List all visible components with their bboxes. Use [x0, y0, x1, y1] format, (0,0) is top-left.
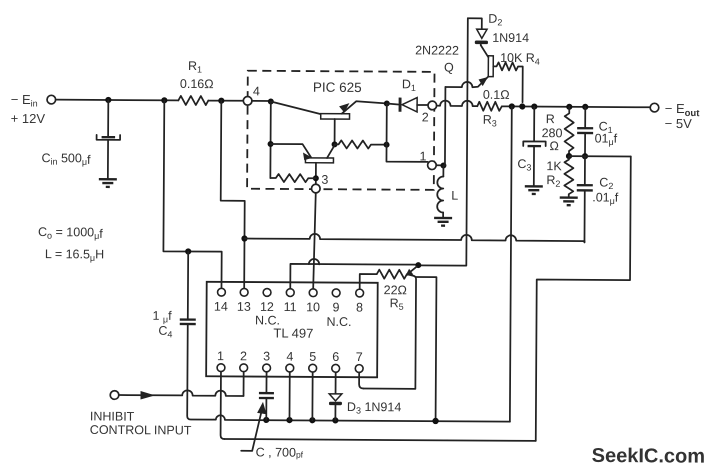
wire inhibit with arrow and hops	[119, 390, 244, 396]
svg-text:11: 11	[284, 300, 297, 314]
wire R5 to bottom rail	[415, 277, 436, 421]
svg-text:14: 14	[214, 300, 228, 314]
hybrid PIC 625 dashed box	[247, 71, 434, 190]
wire pin1 down through rails	[221, 372, 225, 439]
diode D1	[387, 77, 428, 112]
svg-text:2: 2	[240, 349, 247, 363]
capacitor C700 at pin3	[259, 372, 274, 420]
capacitor Cin 500uf	[41, 100, 120, 179]
wire collector T1	[271, 101, 322, 114]
node R4 bottom	[519, 103, 525, 109]
transistor Q 2N2222	[415, 43, 493, 86]
pin 3	[263, 364, 271, 372]
svg-text:Ω: Ω	[550, 139, 559, 153]
node sense-down	[509, 103, 515, 109]
node C3 top	[531, 103, 537, 109]
wire D2 anode rail down to pin11 wire	[418, 18, 468, 266]
output terminal -Eout	[650, 101, 700, 131]
diode D2 1N914	[468, 12, 530, 46]
wire main output rail with hops	[437, 101, 478, 107]
node base drive junction	[415, 262, 421, 268]
wire left internal rail	[269, 101, 271, 177]
svg-text:− 5V: − 5V	[665, 116, 693, 131]
input terminal -Ein	[11, 92, 56, 126]
wire pin4 to internal node	[252, 100, 271, 102]
resistor R3 0.1ohm	[477, 88, 509, 129]
wire feedback loop right	[536, 156, 631, 442]
node after R1	[218, 98, 224, 104]
svg-text:Q: Q	[444, 61, 454, 75]
svg-text:SeekIC.com: SeekIC.com	[592, 445, 706, 468]
wire cross rail y240 with hops	[244, 233, 584, 242]
arrow from R5 to base drive node	[405, 267, 416, 276]
node D3 bottom	[332, 417, 338, 423]
svg-text:D3 1N914: D3 1N914	[347, 400, 401, 416]
svg-text:N.C.: N.C.	[326, 315, 351, 329]
wire pin1 to L node	[436, 164, 443, 166]
svg-text:0.16Ω: 0.16Ω	[180, 77, 214, 91]
resistor PIC mid	[335, 140, 387, 148]
wire pin11 up to base drive row	[290, 264, 418, 290]
hop on base drive row over pin10 wire	[309, 259, 319, 264]
pin 11	[286, 289, 294, 297]
label C 700pf with leader arrow	[241, 402, 304, 460]
svg-text:22Ω: 22Ω	[384, 283, 407, 297]
pin 1	[217, 364, 225, 372]
pin 14	[218, 288, 226, 296]
pin 8	[356, 289, 364, 297]
node right internal	[384, 142, 390, 148]
pin 12	[263, 289, 271, 297]
svg-text:5: 5	[309, 350, 316, 364]
ground under L	[434, 212, 452, 225]
pin 6	[332, 364, 340, 372]
svg-text:2N2222: 2N2222	[415, 43, 459, 57]
resistor R5 22ohm	[377, 270, 408, 312]
pin 3	[311, 184, 320, 193]
svg-text:9: 9	[333, 300, 340, 314]
svg-text:1K: 1K	[546, 159, 562, 173]
node L top	[440, 163, 446, 169]
node input junction A	[105, 97, 111, 103]
svg-text:3: 3	[263, 349, 270, 363]
svg-text:.01μf: .01μf	[592, 190, 619, 206]
svg-text:6: 6	[332, 350, 339, 364]
pin 2	[240, 364, 248, 372]
node pin4 bottom	[286, 417, 292, 423]
wire rail to output	[502, 105, 650, 108]
node R280 top	[566, 104, 572, 110]
transistor T1 (upper)	[321, 101, 387, 145]
bottom rail 2	[224, 439, 535, 441]
svg-text:1: 1	[419, 149, 426, 163]
svg-text:1N914: 1N914	[492, 31, 529, 45]
svg-text:13: 13	[237, 300, 251, 314]
wire sense feed down to TL497 pin 13	[220, 101, 245, 289]
svg-text:4: 4	[253, 84, 260, 98]
transistor T2 (lower)	[303, 145, 335, 188]
node PIC input	[268, 98, 274, 104]
svg-text:10: 10	[306, 300, 320, 314]
resistor PIC lower-left	[270, 174, 316, 182]
wire pin2 down to inhibit	[243, 372, 245, 396]
wire divider row	[569, 155, 631, 157]
pin 4	[243, 97, 252, 106]
svg-text:INHIBIT: INHIBIT	[90, 409, 135, 423]
wire +12V feed down to TL497 pin 14	[163, 100, 222, 288]
svg-text:3: 3	[321, 173, 328, 187]
svg-text:7: 7	[356, 350, 363, 364]
node pin13 / feedback wire	[241, 235, 247, 241]
wire pin8 elbow to R5	[360, 274, 377, 289]
wire Q emitter to L node (vertical)	[444, 87, 446, 165]
pin 1	[428, 161, 437, 170]
inductor L	[437, 165, 458, 212]
svg-text:10K R4: 10K R4	[500, 51, 540, 67]
capacitor C4 1uf	[152, 251, 215, 419]
pin 10	[309, 289, 317, 297]
wire input rail	[56, 99, 179, 102]
svg-text:CONTROL INPUT: CONTROL INPUT	[90, 423, 192, 438]
svg-text:PIC 625: PIC 625	[313, 80, 362, 95]
svg-text:R: R	[546, 112, 555, 126]
wire R5 right end to pin7 riser	[363, 274, 416, 389]
node divider mid	[566, 153, 572, 159]
node C1 bottom	[582, 153, 588, 159]
svg-text:12: 12	[260, 300, 274, 314]
node R5 rail junction	[432, 418, 438, 424]
diode D3 1N914	[329, 372, 402, 421]
capacitor C2 .01uf	[576, 156, 619, 242]
svg-text:TL 497: TL 497	[273, 325, 313, 340]
capacitor C3	[517, 106, 546, 185]
node C1 top	[582, 104, 588, 110]
svg-text:+ 12V: + 12V	[11, 111, 46, 126]
pin 5	[309, 364, 317, 372]
resistor R4 10K	[493, 51, 540, 102]
capacitor C1 01uf	[577, 107, 618, 157]
resistor R 280ohm	[541, 107, 573, 156]
node T2 emitter / pin3	[313, 175, 319, 181]
node pin3 cap bottom	[263, 417, 269, 423]
svg-text:N.C.: N.C.	[255, 313, 280, 327]
svg-text:1: 1	[217, 349, 224, 363]
pin 7	[355, 365, 363, 373]
wire right internal rail to pin1	[386, 103, 428, 161]
svg-text:2: 2	[422, 110, 429, 124]
svg-text:1 μf: 1 μf	[152, 309, 172, 325]
wire PIC pin3 down to pin10	[313, 193, 316, 289]
ground under C3	[525, 186, 543, 194]
wire pin4 down	[288, 372, 290, 420]
svg-text:0.1Ω: 0.1Ω	[483, 88, 510, 102]
pin 4	[286, 364, 294, 372]
svg-text:L: L	[451, 189, 458, 203]
ground under R2	[560, 198, 578, 206]
svg-text:8: 8	[356, 300, 363, 314]
svg-text:01μf: 01μf	[595, 131, 618, 147]
IC TL497 body	[206, 282, 378, 378]
wire Q emitter horizontal with hop	[445, 76, 488, 87]
node T1 base / T2 collector	[332, 141, 338, 147]
node after R1 to pin4	[208, 100, 243, 102]
wire pin7	[359, 372, 363, 388]
wire T2 base	[270, 144, 311, 157]
svg-text:L = 16.5μH: L = 16.5μH	[45, 247, 104, 263]
ground under Cin	[99, 179, 117, 187]
resistor R1 0.16ohm	[178, 59, 213, 105]
pin 9	[332, 289, 340, 297]
wire pin5 down	[311, 372, 313, 420]
inhibit input terminal	[90, 391, 192, 438]
node C4 tap	[185, 248, 191, 254]
node pin5 bottom	[309, 417, 315, 423]
wire sense line down to bottom rail	[510, 106, 512, 421]
bottom rail 1	[214, 415, 510, 421]
pin 13	[240, 288, 248, 296]
pin 2	[428, 101, 437, 110]
node input junction B	[161, 97, 167, 103]
svg-text:280: 280	[542, 126, 563, 140]
svg-text:4: 4	[286, 350, 293, 364]
resistor R2 1K	[546, 156, 573, 197]
node T1 emitter rail	[384, 100, 390, 106]
node left mid	[268, 141, 274, 147]
